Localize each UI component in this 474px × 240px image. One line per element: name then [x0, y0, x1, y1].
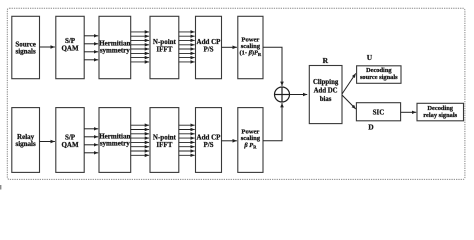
wire: bottom power scaling to adder (right then up) [263, 103, 282, 141]
svg-text:QAM: QAM [61, 141, 79, 149]
svg-text:SIC: SIC [373, 108, 385, 116]
svg-text:IFFT: IFFT [156, 141, 172, 149]
wire: QAM to Hermitian (bottom) 2 [84, 136, 98, 138]
block: Hermitian symmetry (bottom) [99, 108, 131, 173]
svg-text:Decoding: Decoding [427, 105, 453, 112]
block: SIC [356, 103, 400, 121]
svg-text:source signals: source signals [360, 74, 398, 81]
svg-text:relay signals: relay signals [423, 112, 457, 119]
svg-text:U: U [367, 53, 373, 62]
wire bus: IFFT to Add CP (bottom, 8 lines) [179, 125, 195, 155]
svg-text:signals: signals [15, 47, 36, 55]
wire: SIC to decoding relay [401, 111, 417, 113]
wire: QAM to Hermitian 4 [84, 59, 98, 61]
svg-text:IFFT: IFFT [156, 46, 172, 54]
wire bus: Hermitian to IFFT (bottom, 8 lines) [131, 125, 149, 155]
block: S/P QAM (top) [56, 16, 84, 78]
dashed system border [7, 8, 465, 179]
svg-text:P/S: P/S [203, 141, 213, 149]
svg-text:scaling: scaling [241, 135, 261, 142]
block: Hermitian symmetry (top) [99, 16, 131, 78]
block: N-point IFFT (bottom) [150, 108, 179, 173]
block: Source signals [12, 16, 40, 78]
wire: Add CP to Power scaling (bottom) [222, 140, 237, 142]
wire: clipping to decoding source (diagonal up) [342, 73, 356, 94]
block: Add CP P/S (bottom) [196, 108, 222, 173]
svg-text:Add DC: Add DC [314, 87, 338, 94]
corner artifact [0, 185, 1, 190]
block: S/P QAM (bottom) [56, 108, 84, 173]
wire bus: Hermitian to IFFT (top, 8 lines) [131, 32, 149, 62]
block: Relay signals [12, 108, 40, 173]
block: Power scaling bPR (bottom) [238, 108, 263, 173]
wire: QAM to Hermitian 1 [84, 35, 98, 37]
wire: QAM to Hermitian (bottom) 1 [84, 128, 98, 130]
block: Decoding relay signals [417, 103, 464, 121]
svg-text:QAM: QAM [61, 45, 79, 53]
svg-text:P/S: P/S [203, 46, 213, 54]
svg-text:Clipping: Clipping [313, 79, 339, 86]
wire: QAM to Hermitian 3 [84, 51, 98, 53]
block: Clipping Add DC bias [309, 66, 342, 124]
block: Power scaling (1-b)PR (top) [238, 16, 263, 78]
adder (circled plus) [275, 87, 290, 102]
svg-text:symmetry: symmetry [100, 140, 130, 148]
wire bus: IFFT to Add CP (top, 8 lines) [179, 32, 195, 62]
svg-text:bias: bias [320, 96, 332, 103]
svg-text:Decoding: Decoding [366, 67, 392, 74]
wire: clipping to SIC (diagonal down) [342, 95, 356, 109]
block: Decoding source signals [357, 66, 401, 84]
wire: QAM to Hermitian (bottom) 3 [84, 144, 98, 146]
svg-text:D: D [368, 123, 374, 132]
wire: top power scaling to adder (right then down) [263, 47, 282, 86]
wire: relay to S/P QAM [40, 141, 55, 143]
svg-text:symmetry: symmetry [100, 47, 130, 55]
block: N-point IFFT (top) [150, 16, 179, 78]
wire: Add CP to Power scaling (top) [222, 46, 237, 48]
wire: QAM to Hermitian 2 [84, 43, 98, 45]
wire: source to S/P QAM [40, 46, 55, 48]
wire: QAM to Hermitian (bottom) 4 [84, 152, 98, 154]
block: Add CP P/S (top) [196, 16, 222, 78]
svg-text:signals: signals [15, 140, 36, 148]
wire: adder to clipping block [290, 94, 308, 96]
svg-text:R: R [323, 56, 329, 65]
